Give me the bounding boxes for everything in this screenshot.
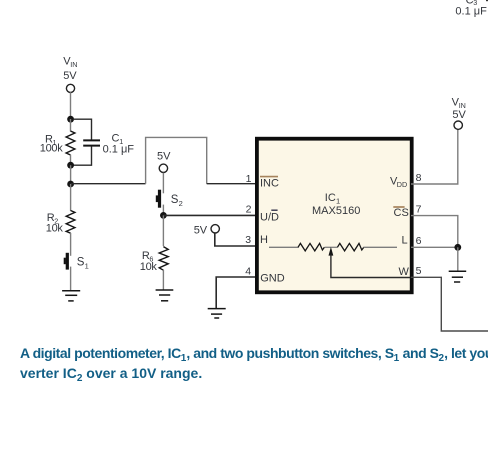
svg-text:IC: IC <box>325 192 336 204</box>
wire S1 to ground <box>70 267 72 290</box>
wire jog to pin1 INC <box>207 183 256 185</box>
op-amp-box IC1 MAX5160 body <box>257 139 412 293</box>
wire R6 to ground <box>162 270 164 290</box>
svg-text:5V: 5V <box>63 70 77 82</box>
wire 5V to S2 <box>162 173 164 194</box>
resistor R6 <box>159 247 168 271</box>
svg-text:10k: 10k <box>140 261 158 273</box>
label S2 <box>171 194 183 208</box>
ground G4 <box>449 271 467 282</box>
svg-text:1: 1 <box>246 173 252 185</box>
switch S1 <box>64 253 69 270</box>
svg-text:MAX5160: MAX5160 <box>312 205 360 217</box>
svg-text:2: 2 <box>179 199 183 208</box>
svg-text:5: 5 <box>416 265 422 277</box>
ground G3 <box>208 309 226 318</box>
node junction R1-bottom/C1 <box>67 162 74 169</box>
label R6 <box>140 250 158 273</box>
svg-text:0.1 μF: 0.1 μF <box>103 144 135 156</box>
wire pot center segment <box>325 246 338 248</box>
wire node to ground G4 <box>457 247 459 270</box>
wire pin5 W out to right edge <box>411 277 488 331</box>
label IC1 <box>325 192 340 205</box>
svg-text:7: 7 <box>416 203 422 215</box>
node junction CS/L/ground <box>454 244 461 251</box>
label R1 <box>40 134 63 155</box>
wire node to R6 <box>162 215 164 246</box>
label C1 <box>103 132 135 155</box>
pin 8 label VDD <box>390 176 407 190</box>
label C3 (clipped at top) <box>466 0 478 7</box>
svg-text:5V: 5V <box>157 151 171 163</box>
wire S2 to node <box>162 205 164 213</box>
wire pin6 L to node <box>411 246 458 248</box>
svg-text:U/D: U/D <box>260 212 279 224</box>
ground G1 <box>62 291 80 301</box>
node junction R1-top/C1 <box>67 116 74 123</box>
wire fragment top-right corner <box>486 0 488 1</box>
svg-text:10k: 10k <box>46 222 64 234</box>
wire node2 to node3 <box>70 165 72 184</box>
svg-text:100k: 100k <box>40 142 63 154</box>
svg-text:DD: DD <box>397 180 407 189</box>
svg-text:1: 1 <box>85 261 89 270</box>
svg-text:CS: CS <box>394 207 409 219</box>
svg-text:2: 2 <box>246 204 252 216</box>
resistor R1 <box>70 119 72 132</box>
svg-text:H: H <box>260 234 268 246</box>
svg-text:6: 6 <box>416 235 422 247</box>
wire jog over S2 (gray) <box>146 137 207 183</box>
caption line 1 <box>20 345 488 361</box>
switch S2 <box>156 190 161 208</box>
node junction divider tap <box>67 181 74 188</box>
label VIN right <box>452 97 467 121</box>
ground G2 <box>156 290 174 301</box>
svg-text:5V: 5V <box>452 109 466 121</box>
pin 7 label CS <box>393 207 408 219</box>
wire tap to jog (black horizontal) <box>71 183 146 185</box>
wire pin7 CS to ground net <box>411 216 458 248</box>
resistor pot left element <box>298 243 324 251</box>
pin 1 label INC <box>260 177 279 190</box>
resistor R2 <box>70 184 72 211</box>
pin 2 label UD <box>260 210 279 223</box>
svg-text:0.1 μF: 0.1 μF <box>455 6 487 18</box>
capacitor C1 <box>83 140 100 145</box>
svg-text:IN: IN <box>70 60 77 69</box>
wire pin4 GND to ground <box>216 277 256 308</box>
svg-text:W: W <box>399 266 410 278</box>
node pin3 5V terminal circle <box>211 225 219 233</box>
svg-text:S: S <box>77 257 85 269</box>
node VIN-left terminal label <box>63 56 77 83</box>
svg-text:8: 8 <box>416 172 422 184</box>
label S1 <box>77 257 89 271</box>
svg-text:5V: 5V <box>194 224 208 236</box>
resistor pot right element <box>337 243 363 251</box>
svg-text:C: C <box>112 132 120 144</box>
svg-text:4: 4 <box>245 265 251 277</box>
svg-text:L: L <box>402 235 408 247</box>
svg-text:S: S <box>171 194 179 206</box>
svg-text:INC: INC <box>260 178 279 190</box>
caption line 2 <box>20 365 202 381</box>
node junction S2/R6/pin2 <box>160 212 167 219</box>
wire pot H-segment <box>269 246 299 248</box>
svg-text:3: 3 <box>245 234 251 246</box>
node VIN-right terminal circle <box>454 121 462 129</box>
wire VIN-left to node1 <box>70 92 72 119</box>
wire 5V terminal to pin3 H <box>215 233 256 246</box>
svg-text:GND: GND <box>260 272 285 284</box>
label R2 <box>46 212 64 234</box>
wire C1 top loop <box>73 119 92 139</box>
wire C1 bottom loop <box>73 147 92 166</box>
node VIN-left terminal circle <box>66 84 74 92</box>
wire pot L-segment <box>363 246 397 248</box>
node S2 5V terminal circle <box>159 164 167 172</box>
wire pin8 VDD to VIN-right <box>411 129 458 184</box>
wire node to pin2 UD <box>163 214 256 216</box>
wiper arrow of pot <box>329 247 411 278</box>
